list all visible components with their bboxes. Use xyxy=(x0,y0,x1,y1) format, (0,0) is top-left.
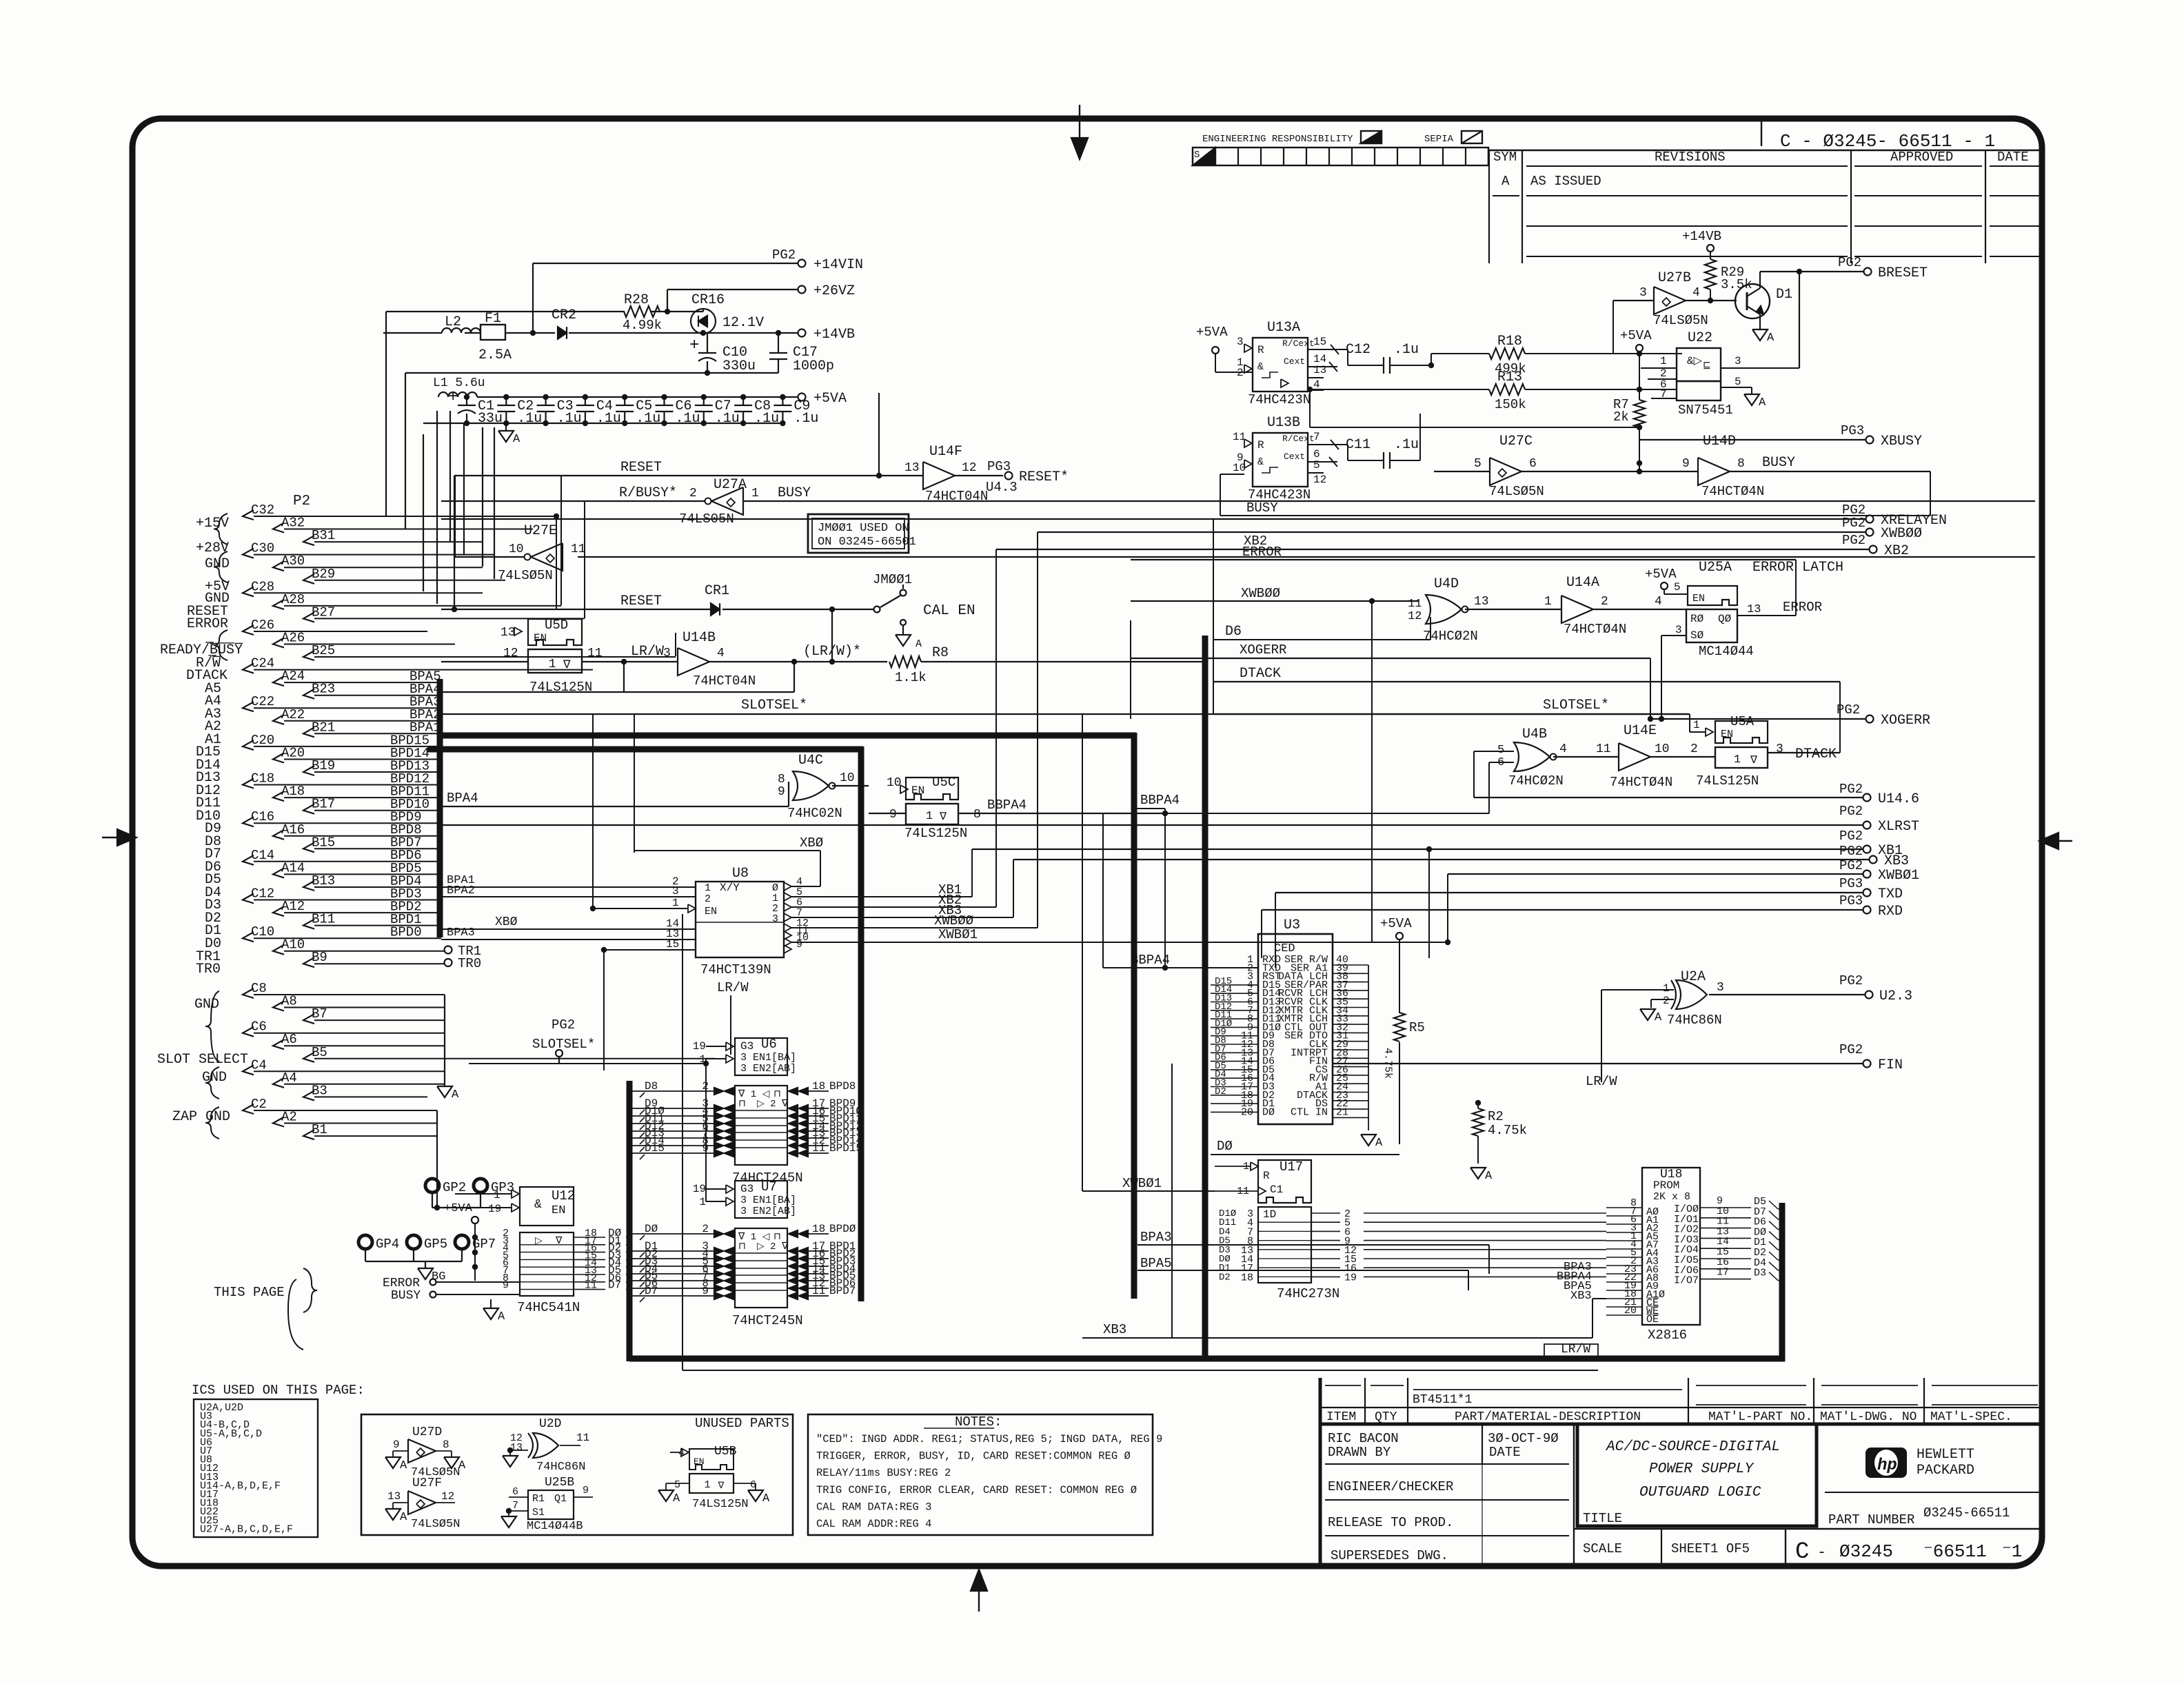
wire slot select long xyxy=(714,1059,716,1070)
svg-text:A: A xyxy=(1655,1011,1662,1024)
svg-text:A12: A12 xyxy=(281,899,305,914)
svg-text:RESET*: RESET* xyxy=(1019,469,1069,485)
wire XWB00 to U4D xyxy=(1131,586,1419,943)
wire XB1 from U8 xyxy=(791,849,972,897)
svg-text:SN75451: SN75451 xyxy=(1678,403,1733,418)
svg-text:XWBØ1: XWBØ1 xyxy=(1122,1176,1162,1191)
terminal U2.3 xyxy=(1839,973,1912,1004)
P2 pin B15 xyxy=(303,835,441,852)
inverter U27E 74LS05N xyxy=(455,476,2035,583)
svg-text:1.1k: 1.1k xyxy=(895,670,927,685)
svg-text:5: 5 xyxy=(1474,457,1482,471)
svg-text:BPA4: BPA4 xyxy=(447,791,478,806)
svg-text:U27C: U27C xyxy=(1499,434,1533,449)
svg-text:SYM: SYM xyxy=(1493,150,1517,165)
svg-text:C28: C28 xyxy=(251,579,274,594)
terminal TXD xyxy=(1275,876,1903,968)
P2 pin C8 xyxy=(243,981,445,998)
svg-text:⊑: ⊑ xyxy=(1703,360,1711,372)
P2 pin C20 xyxy=(243,733,441,750)
wire B25 LR-W feed xyxy=(528,633,676,656)
P2 pin C24 xyxy=(243,656,593,673)
svg-text:1: 1 xyxy=(1693,719,1700,731)
svg-text:PG2: PG2 xyxy=(1839,858,1863,873)
wire D0 under U3 xyxy=(1211,1139,1399,1155)
svg-text:XOGERR: XOGERR xyxy=(1881,713,1930,729)
wire bundle left risers xyxy=(533,333,585,618)
P2 pin B29 xyxy=(303,567,505,584)
svg-text:9: 9 xyxy=(778,785,785,799)
svg-text:C18: C18 xyxy=(251,771,274,786)
scale / sheet row xyxy=(1574,1529,2042,1566)
svg-text:2: 2 xyxy=(1601,595,1608,609)
svg-text:11: 11 xyxy=(587,647,603,660)
inverter U27F unused xyxy=(385,1476,460,1531)
svg-text:1: 1 xyxy=(699,1196,706,1208)
resistor R5 4.75k xyxy=(1382,1013,1425,1150)
svg-text:B11: B11 xyxy=(312,912,335,927)
P2 pin A2 xyxy=(273,1110,437,1127)
svg-text:R5: R5 xyxy=(1409,1020,1425,1035)
svg-text:THIS PAGE: THIS PAGE xyxy=(214,1285,285,1300)
svg-text:BUSY: BUSY xyxy=(1246,500,1278,516)
P2 pin C30 xyxy=(243,541,494,558)
svg-text:+14VB: +14VB xyxy=(1682,229,1721,244)
svg-text:SLOTSEL*: SLOTSEL* xyxy=(532,1037,595,1052)
svg-text:C30: C30 xyxy=(251,541,274,556)
svg-text:APPROVED: APPROVED xyxy=(1890,150,1953,165)
inverter U27B 74LS05N xyxy=(1613,270,1737,354)
svg-text:POWER SUPPLY: POWER SUPPLY xyxy=(1649,1461,1755,1477)
svg-text:XB2: XB2 xyxy=(1884,543,1909,559)
terminal RESET* xyxy=(986,459,1069,495)
svg-text:BRESET: BRESET xyxy=(1878,265,1928,281)
svg-text:3 EN2[AB]: 3 EN2[AB] xyxy=(740,1206,796,1217)
svg-text:U27A: U27A xyxy=(714,477,747,493)
svg-text:74HC86N: 74HC86N xyxy=(1667,1013,1722,1028)
svg-text:XOGERR: XOGERR xyxy=(1240,642,1286,658)
nor gate U4D 74HC02N xyxy=(1408,576,1561,644)
svg-text:A: A xyxy=(452,1088,459,1101)
svg-text:C12: C12 xyxy=(251,886,274,902)
P2 pin A30 xyxy=(273,553,483,571)
wire (LR/W)* xyxy=(794,644,887,692)
terminal +26VZ xyxy=(667,283,855,312)
svg-text:RIC BACON: RIC BACON xyxy=(1328,1431,1399,1446)
svg-text:D2: D2 xyxy=(1215,1086,1226,1097)
svg-text:QØ: QØ xyxy=(1718,613,1732,625)
P2 pin A22 xyxy=(273,707,441,724)
svg-text:3 EN1[BA]: 3 EN1[BA] xyxy=(740,1052,796,1064)
svg-text:EN: EN xyxy=(1692,593,1705,605)
svg-text:PG2: PG2 xyxy=(1839,844,1863,859)
svg-text:⁻1: ⁻1 xyxy=(2002,1541,2022,1562)
wire LR/W lower return xyxy=(441,662,979,692)
svg-text:1: 1 xyxy=(926,810,933,823)
svg-text:+5VA: +5VA xyxy=(1620,328,1652,343)
wire +14VB rail xyxy=(383,309,691,333)
svg-text:Q1: Q1 xyxy=(554,1493,567,1505)
svg-text:LR/W: LR/W xyxy=(717,980,749,995)
svg-text:2K x 8: 2K x 8 xyxy=(1653,1191,1690,1203)
svg-text:11: 11 xyxy=(576,1432,589,1444)
svg-text:.1u: .1u xyxy=(557,411,582,427)
wire BPA4 branch xyxy=(443,782,789,806)
engineering responsibility header xyxy=(1202,131,1482,145)
svg-text:7: 7 xyxy=(512,1500,518,1512)
wire XB3 from U8 xyxy=(791,860,1013,918)
svg-text:GND: GND xyxy=(194,997,219,1013)
svg-text:CAL RAM DATA:REG 3: CAL RAM DATA:REG 3 xyxy=(816,1501,931,1513)
svg-text:A24: A24 xyxy=(281,669,305,684)
svg-text:C24: C24 xyxy=(251,656,274,671)
wire XBUSY run xyxy=(1241,439,2035,440)
xor gate U2D unused xyxy=(503,1417,589,1474)
wire XWB01 label right xyxy=(1448,874,1603,976)
svg-text:+5VA: +5VA xyxy=(1380,916,1412,931)
P2 pin B7 xyxy=(303,1006,445,1024)
svg-text:13: 13 xyxy=(1747,603,1761,616)
svg-text:74HC423N: 74HC423N xyxy=(1248,392,1311,407)
svg-text:3: 3 xyxy=(1237,336,1244,348)
svg-text:2.5A: 2.5A xyxy=(478,347,512,363)
svg-text:BPA3: BPA3 xyxy=(447,926,475,940)
svg-text:13: 13 xyxy=(501,626,516,640)
svg-text:2: 2 xyxy=(705,893,711,905)
svg-text:3: 3 xyxy=(663,647,671,660)
svg-text:3: 3 xyxy=(1735,355,1741,367)
svg-text:B23: B23 xyxy=(312,682,335,697)
transceiver U6 74HCT245N xyxy=(631,1037,862,1186)
svg-text:S: S xyxy=(1194,150,1200,161)
jack GP5 xyxy=(407,1235,447,1252)
svg-text:74HCØ2N: 74HCØ2N xyxy=(1423,629,1478,644)
svg-text:C11: C11 xyxy=(1346,437,1371,453)
bus data thick vertical xyxy=(858,746,865,1301)
bus labels BPA5-BPA1 xyxy=(410,669,441,735)
svg-text:CR2: CR2 xyxy=(552,307,576,323)
svg-text:A: A xyxy=(1485,1170,1493,1183)
buffer U5A 74LS125N xyxy=(1696,714,1840,789)
svg-text:12: 12 xyxy=(1408,610,1422,623)
terminal XWB00 xyxy=(1038,516,1922,542)
svg-text:PG2: PG2 xyxy=(1842,533,1866,548)
svg-text:4.99k: 4.99k xyxy=(623,318,662,333)
svg-text:ERROR: ERROR xyxy=(1242,545,1282,560)
terminal FIN xyxy=(1333,1042,1903,1073)
P2 pin A20 xyxy=(273,746,441,763)
svg-text:XWBØØ: XWBØØ xyxy=(934,913,973,928)
svg-text:19: 19 xyxy=(693,1183,706,1195)
P2 pin C12 xyxy=(243,886,441,904)
capacitor C3 .1u xyxy=(537,394,582,427)
svg-text:&▷: &▷ xyxy=(1687,355,1703,367)
svg-text:C16: C16 xyxy=(251,809,274,824)
THIS PAGE brace xyxy=(214,1268,317,1350)
terminal +5VA at U13A xyxy=(1196,325,1253,372)
svg-text:R8: R8 xyxy=(932,645,949,661)
svg-text:BPDØ: BPDØ xyxy=(829,1223,856,1235)
svg-text:9: 9 xyxy=(796,939,802,951)
svg-text:ITEM: ITEM xyxy=(1326,1410,1356,1424)
svg-text:33u: 33u xyxy=(478,411,503,427)
svg-text:DRAWN BY: DRAWN BY xyxy=(1328,1445,1391,1460)
svg-text:SLOTSEL*: SLOTSEL* xyxy=(1543,698,1609,713)
jack GP3 xyxy=(474,1179,514,1195)
ground A under cap bank xyxy=(498,423,520,446)
terminal +14VIN xyxy=(772,247,863,273)
P2 pin B1 xyxy=(303,1122,437,1139)
svg-text:9: 9 xyxy=(1682,457,1690,471)
svg-text:C10: C10 xyxy=(251,924,274,940)
svg-text:B15: B15 xyxy=(312,835,335,850)
svg-text:R28: R28 xyxy=(624,292,649,308)
transistor Q1 xyxy=(1735,269,1802,329)
wire XWB01 from U8 xyxy=(791,874,1450,945)
svg-text:ERROR LATCH: ERROR LATCH xyxy=(1752,560,1843,576)
svg-text:BT4511*1: BT4511*1 xyxy=(1413,1393,1472,1407)
svg-text:15: 15 xyxy=(1313,336,1326,348)
svg-text:U14D: U14D xyxy=(1703,434,1736,449)
terminal RXD xyxy=(1262,893,1903,958)
bus U18 data thick vertical xyxy=(1779,1203,1786,1361)
P2 signal names xyxy=(157,516,248,1125)
svg-text:C20: C20 xyxy=(251,733,274,748)
svg-text:R1: R1 xyxy=(532,1493,545,1505)
svg-text:R/Cext: R/Cext xyxy=(1282,434,1315,444)
terminal XRELAYEN xyxy=(441,502,1947,529)
svg-text:GP2: GP2 xyxy=(443,1180,466,1195)
svg-text:ENGINEER/CHECKER: ENGINEER/CHECKER xyxy=(1328,1479,1453,1494)
svg-text:BPD8: BPD8 xyxy=(829,1080,856,1093)
svg-text:A16: A16 xyxy=(281,822,305,837)
terminal +5VA at R5 xyxy=(1380,916,1412,1013)
svg-text:BPA2: BPA2 xyxy=(447,884,475,897)
svg-text:10: 10 xyxy=(1655,742,1670,756)
svg-text:HEWLETT: HEWLETT xyxy=(1917,1447,1974,1463)
svg-text:C12: C12 xyxy=(1346,342,1371,358)
revision table xyxy=(1489,150,2039,263)
svg-text:11: 11 xyxy=(1596,742,1611,756)
svg-text:+14VIN: +14VIN xyxy=(813,257,863,273)
U3 left data stubs xyxy=(1211,976,1258,1113)
svg-text:9: 9 xyxy=(889,808,897,822)
svg-text:1D: 1D xyxy=(1263,1208,1276,1221)
P2 pin A10 xyxy=(273,937,445,955)
wire +14VIN feed xyxy=(533,263,802,333)
svg-text:U14E: U14E xyxy=(1624,723,1657,739)
svg-text:∇: ∇ xyxy=(555,1236,563,1247)
svg-text:U14B: U14B xyxy=(682,630,716,646)
P2 pin C16 xyxy=(243,809,441,826)
svg-text:U6: U6 xyxy=(761,1037,777,1052)
P2 pin A8 xyxy=(273,994,445,1011)
ZAP GND vertical xyxy=(436,1110,438,1188)
PROM U18 X2816 xyxy=(1606,1168,1782,1343)
buffer U5D 74LS125N xyxy=(441,618,627,695)
jack GP7 xyxy=(455,1235,496,1252)
svg-text:ERROR: ERROR xyxy=(383,1277,420,1290)
register U17 74HC273N xyxy=(1211,1159,1606,1301)
wire XB2 from U8 xyxy=(791,549,996,908)
terminal XLRST xyxy=(441,804,1919,835)
svg-text:R18: R18 xyxy=(1497,334,1522,349)
svg-text:12: 12 xyxy=(1313,474,1326,486)
svg-text:R: R xyxy=(1257,439,1264,451)
error latch outline wires xyxy=(1213,617,1430,640)
svg-text:DATE: DATE xyxy=(1489,1445,1521,1460)
terminal XBUSY xyxy=(1639,423,1922,449)
svg-text:12.1V: 12.1V xyxy=(722,315,764,331)
svg-text:U25A: U25A xyxy=(1699,560,1732,576)
svg-text:74HCTØ4N: 74HCTØ4N xyxy=(1564,622,1626,637)
svg-text:PG2: PG2 xyxy=(1839,1042,1863,1057)
svg-text:EN: EN xyxy=(534,632,547,644)
svg-text:SLOTSEL*: SLOTSEL* xyxy=(741,698,807,713)
svg-text:BPD0: BPD0 xyxy=(390,925,422,940)
svg-text:EN: EN xyxy=(911,784,924,797)
svg-text:.1u: .1u xyxy=(596,411,621,427)
svg-text:XB3: XB3 xyxy=(1570,1290,1592,1303)
svg-text:&: & xyxy=(1257,456,1264,468)
svg-text:B29: B29 xyxy=(312,567,335,582)
svg-text:XWBØ1: XWBØ1 xyxy=(938,927,978,942)
svg-text:A: A xyxy=(1502,174,1510,189)
svg-text:4: 4 xyxy=(1692,286,1700,300)
U3 right pin collector xyxy=(1361,965,1383,1150)
svg-text:XBUSY: XBUSY xyxy=(1881,434,1922,449)
svg-text:A: A xyxy=(458,1459,466,1472)
svg-text:74LS125N: 74LS125N xyxy=(904,826,967,841)
svg-text:U17: U17 xyxy=(1280,1159,1303,1175)
svg-text:6: 6 xyxy=(512,1486,518,1498)
svg-text:PG2: PG2 xyxy=(552,1017,575,1033)
IC U3 CED 40-pin xyxy=(1241,917,1368,1124)
P2 pin C10 xyxy=(243,924,441,942)
svg-text:10: 10 xyxy=(1233,462,1246,474)
capacitor C6 .1u xyxy=(656,394,700,427)
svg-text:QTY: QTY xyxy=(1375,1410,1397,1424)
svg-text:U27-A,B,C,D,E,F: U27-A,B,C,D,E,F xyxy=(200,1523,293,1535)
svg-text:XB3: XB3 xyxy=(1884,853,1909,869)
svg-text:U4.3: U4.3 xyxy=(986,480,1018,495)
svg-text:4: 4 xyxy=(1559,742,1567,756)
svg-text:XWBØØ: XWBØØ xyxy=(1241,586,1280,601)
svg-text:TITLE: TITLE xyxy=(1583,1511,1622,1526)
svg-text:BPA3: BPA3 xyxy=(1140,1230,1172,1245)
capacitor C11 .1u xyxy=(1346,389,1431,469)
svg-text:SHEET1 OF5: SHEET1 OF5 xyxy=(1671,1541,1750,1556)
inverter U27A 74LS05N xyxy=(679,477,759,527)
svg-text:U27E: U27E xyxy=(524,523,557,539)
svg-text:330u: 330u xyxy=(722,358,756,374)
jack GP4 xyxy=(358,1235,399,1252)
P2 pin C22 xyxy=(243,694,441,711)
terminal U14.6 xyxy=(1474,782,1919,807)
svg-text:A: A xyxy=(400,1459,407,1472)
jack GP2 xyxy=(425,1179,466,1195)
svg-text:PART NUMBER: PART NUMBER xyxy=(1828,1512,1914,1527)
svg-text:A: A xyxy=(673,1492,680,1505)
svg-text:RELEASE TO PROD.: RELEASE TO PROD. xyxy=(1328,1515,1453,1530)
svg-text:7: 7 xyxy=(1313,431,1320,443)
svg-text:PACKARD: PACKARD xyxy=(1917,1463,1974,1479)
svg-text:74LSØ5N: 74LSØ5N xyxy=(1489,484,1544,499)
wire BUSY long xyxy=(743,485,2035,501)
svg-text:.1u: .1u xyxy=(517,411,542,427)
P2 pin C6 xyxy=(243,1019,445,1037)
svg-text:C1: C1 xyxy=(1270,1184,1283,1196)
svg-text:74LS125N: 74LS125N xyxy=(1696,773,1759,789)
svg-text:A10: A10 xyxy=(281,937,305,953)
svg-text:RESET: RESET xyxy=(620,593,662,609)
svg-text:RESET: RESET xyxy=(620,460,662,476)
driver U22 SN75451 xyxy=(1639,330,1799,418)
svg-text:MAT'L-DWG. NO: MAT'L-DWG. NO xyxy=(1820,1410,1917,1424)
wire BBPA4 to U3 xyxy=(1103,953,1258,971)
svg-text:ENGINEERING RESPONSIBILITY: ENGINEERING RESPONSIBILITY xyxy=(1202,134,1353,145)
svg-text:A: A xyxy=(513,433,520,446)
svg-text:CAL EN: CAL EN xyxy=(923,603,975,619)
svg-text:MC14Ø44: MC14Ø44 xyxy=(1699,644,1754,659)
latch U25B unused xyxy=(501,1476,593,1533)
svg-text:+5VA: +5VA xyxy=(1196,325,1228,340)
svg-text:U12: U12 xyxy=(552,1188,575,1203)
svg-text:X2816: X2816 xyxy=(1648,1328,1687,1343)
wire RESET upper xyxy=(454,393,923,609)
P2 pin C28 xyxy=(243,579,483,596)
svg-text:Cext: Cext xyxy=(1284,451,1305,462)
U13B pin stubs xyxy=(1308,431,1348,486)
resistor R18 499k xyxy=(1489,334,1682,376)
svg-text:5: 5 xyxy=(1497,744,1504,757)
capacitor C2 .1u xyxy=(497,394,542,427)
bus address thick horizontal xyxy=(440,733,1136,739)
svg-text:8: 8 xyxy=(778,773,785,786)
svg-text:MAT'L-PART NO.: MAT'L-PART NO. xyxy=(1708,1410,1812,1424)
svg-text:PG2: PG2 xyxy=(1842,516,1866,531)
svg-text:∇: ∇ xyxy=(939,811,947,823)
svg-text:PG2: PG2 xyxy=(1839,973,1863,988)
svg-text:U8: U8 xyxy=(732,866,749,882)
svg-text:U2.3: U2.3 xyxy=(1879,988,1912,1004)
svg-text:+: + xyxy=(689,336,699,355)
P2 pin B23 xyxy=(303,682,441,699)
svg-text:1: 1 xyxy=(1663,982,1670,995)
part number row xyxy=(1825,1505,2042,1529)
P2 pin B19 xyxy=(303,758,441,775)
wire SLOTSEL* right xyxy=(1213,698,1713,736)
svg-text:74HCT245N: 74HCT245N xyxy=(732,1313,803,1328)
P2 pin A6 xyxy=(273,1032,445,1049)
svg-text:74HC02N: 74HC02N xyxy=(787,806,842,821)
svg-text:+5VA: +5VA xyxy=(444,1202,473,1215)
svg-text:G3: G3 xyxy=(740,1040,754,1053)
svg-text:UNUSED PARTS: UNUSED PARTS xyxy=(695,1416,789,1431)
title block grid xyxy=(1320,1424,1574,1566)
svg-text:BUSY: BUSY xyxy=(391,1289,421,1303)
P2 pin B9 xyxy=(303,950,445,967)
svg-text:MC14Ø44B: MC14Ø44B xyxy=(527,1520,583,1533)
terminal +5VA at U12 xyxy=(444,1202,478,1281)
svg-text:BUSY: BUSY xyxy=(1762,455,1795,471)
svg-text:∇: ∇ xyxy=(563,659,571,671)
P2 pin B5 xyxy=(303,1045,715,1062)
svg-text:B13: B13 xyxy=(312,873,335,888)
svg-text:150k: 150k xyxy=(1495,397,1526,412)
buffer U5B unused xyxy=(658,1445,770,1511)
bus address thick vertical right xyxy=(1131,733,1137,1299)
